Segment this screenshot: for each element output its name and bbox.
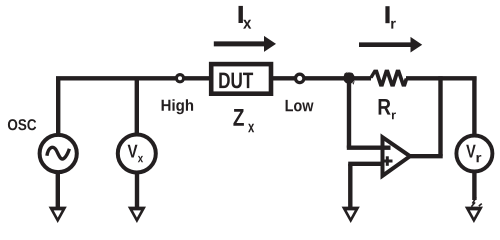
wire feedback riser: [438, 76, 442, 156]
wire Vx to ground: [135, 172, 139, 209]
current arrow Ir: [359, 37, 422, 53]
wire corner drop to Vr: [472, 77, 476, 136]
ground below Vx: [128, 207, 146, 223]
wire top rail left: OSC to DUT: [56, 76, 209, 80]
voltmeter Vx: [118, 135, 156, 173]
wire DUT to resistor: [273, 76, 371, 80]
label High: [162, 99, 194, 114]
wire junction down to inverting input: [347, 78, 351, 147]
ground below op-amp plus input: [342, 207, 360, 223]
wire Vx riser: [135, 77, 139, 136]
wire resistor to top-right corner: [406, 76, 477, 80]
label Rr: [379, 99, 396, 119]
ground below Vr: [465, 207, 483, 223]
current arrow Ix: [214, 36, 276, 52]
break mark above Vr ground: [471, 197, 481, 206]
wire OSC riser: [56, 77, 60, 136]
label Low: [286, 100, 314, 112]
label Ir: [385, 6, 395, 28]
sine wave in OSC: [47, 147, 70, 159]
wire non-inverting input feed: [348, 162, 382, 166]
label Zx: [233, 109, 254, 132]
label DUT: [219, 73, 253, 89]
DUT box: [211, 64, 271, 94]
op-amp U1: [383, 137, 411, 176]
op-amp plus sign: [383, 156, 393, 166]
label OSC: [8, 119, 36, 130]
wire non-inverting to ground: [348, 164, 352, 209]
voltmeter Vr: [456, 136, 492, 172]
node Low (open terminal): [296, 74, 304, 82]
op-amp minus bar (wire extends inside): [383, 145, 391, 149]
wire op-amp output: [410, 154, 443, 158]
junction node: [343, 71, 355, 85]
resistor Rr: [369, 70, 409, 87]
wire OSC to ground: [56, 172, 60, 209]
wire inverting input feed with minus bar: [347, 145, 391, 149]
ground below OSC: [49, 207, 67, 223]
wire Vr to ground: [472, 171, 476, 200]
node High (open terminal): [176, 75, 183, 82]
oscillator OSC: [40, 135, 77, 172]
label Ix: [239, 6, 252, 29]
